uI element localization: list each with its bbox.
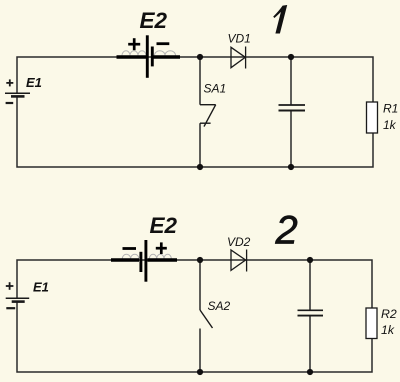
node dot top-left junction (circuit 2) (197, 257, 203, 263)
node dot top-left junction (circuit 1) (197, 54, 203, 60)
svg-text:R1: R1 (383, 101, 398, 115)
wire capacitor C1 branch top (290, 57, 292, 105)
battery E2 long plate (circuit 1) (146, 35, 149, 78)
wire capacitor C2 branch top (309, 260, 311, 310)
battery E2 long plate (circuit 2) (144, 240, 147, 282)
minus sign of E2 (circuit 2) (123, 247, 137, 250)
wire lower loop circuit 1: left column, bottom rail, right column (17, 96, 373, 167)
switch SA1 (200, 105, 216, 127)
node dot bottom-left junction (circuit 1) (197, 164, 203, 170)
capacitor C1 plates (279, 105, 306, 111)
node dot bottom-right junction (circuit 1) (288, 164, 294, 170)
svg-text:SA1: SA1 (204, 82, 227, 96)
wire SA1 branch top (199, 57, 201, 105)
switch SA2 (200, 310, 213, 328)
wire capacitor C2 branch bottom (309, 316, 311, 372)
wire SA2 branch top (199, 260, 201, 310)
diode VD2 (231, 250, 247, 272)
plus sign of E2 (circuit 1) (128, 38, 140, 50)
battery E2 short plate (circuit 2) (139, 252, 142, 272)
inductor bumps right of E2 (circuit 1) (155, 51, 176, 56)
big label 1 (273, 5, 287, 34)
wire upper loop circuit 2: left column, top rail, right column (17, 260, 372, 308)
wire capacitor C1 branch bottom (290, 110, 292, 167)
minus sign of E2 (circuit 1) (157, 42, 170, 45)
svg-text:R2: R2 (381, 307, 397, 321)
resistor R1 (367, 102, 378, 133)
resistor R2 (366, 308, 377, 339)
svg-text:VD2: VD2 (227, 235, 251, 249)
svg-text:2: 2 (275, 208, 298, 252)
inductor bumps right of E2 (circuit 2) (149, 254, 171, 258)
svg-text:E2: E2 (150, 213, 178, 238)
inductor bumps left of E2 (circuit 2) (122, 254, 139, 258)
battery E2 short plate (circuit 1) (151, 47, 154, 67)
plus sign of E1 (circuit 2) (6, 282, 14, 290)
svg-text:SA2: SA2 (208, 299, 231, 313)
minus sign of E1 (circuit 1) (6, 102, 14, 104)
plus sign of E1 (circuit 1) (6, 79, 13, 86)
wire upper loop circuit 1: left column, top rail, right column (17, 57, 373, 102)
svg-text:E2: E2 (140, 8, 168, 33)
node dot bottom-left junction (circuit 2) (197, 369, 203, 375)
svg-text:VD1: VD1 (228, 32, 251, 46)
capacitor C2 plates (298, 310, 324, 315)
node dot top-right junction (circuit 1) (288, 54, 294, 60)
plus sign of E2 (circuit 2) (156, 242, 167, 254)
battery E2 thick leads (circuit 2) (111, 240, 177, 282)
node dot bottom-right junction (circuit 2) (307, 369, 313, 375)
node dot top-right junction (circuit 2) (307, 257, 313, 263)
wire SA1 branch bottom (199, 123, 201, 167)
svg-text:1k: 1k (383, 118, 397, 132)
svg-text:1k: 1k (381, 323, 395, 337)
svg-text:E1: E1 (33, 279, 49, 294)
diode VD1 (231, 47, 246, 69)
inductor bumps left of E2 (circuit 1) (122, 51, 146, 56)
wire SA2 branch bottom (199, 329, 201, 373)
battery E2 thick leads (circuit 1) (117, 35, 181, 78)
battery E1 (circuit 2) (6, 298, 30, 301)
svg-text:E1: E1 (26, 75, 42, 90)
battery E1 (circuit 1) (5, 93, 30, 96)
wire lower loop circuit 2: left column, bottom rail, right column (17, 302, 372, 372)
minus sign of E1 (circuit 2) (6, 307, 15, 309)
